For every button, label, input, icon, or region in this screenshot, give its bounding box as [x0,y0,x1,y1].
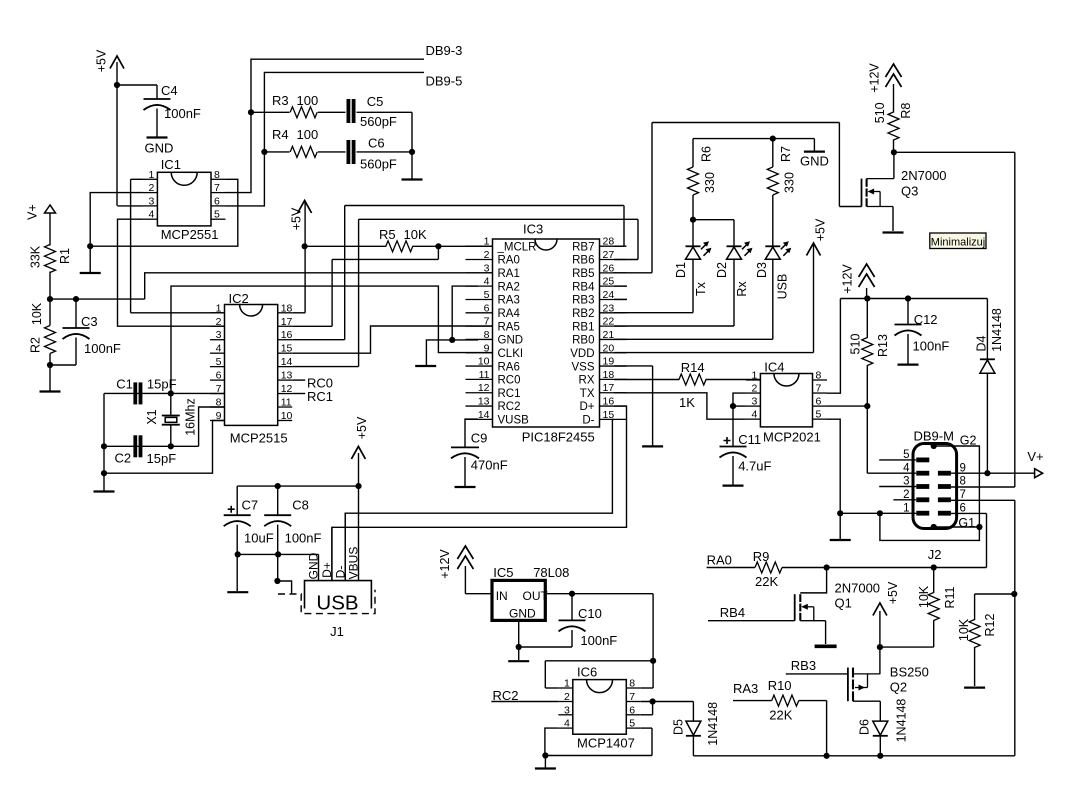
svg-text:510: 510 [873,102,887,123]
svg-text:R5: R5 [379,227,396,242]
svg-text:16Mhz: 16Mhz [184,398,198,436]
svg-text:BS250: BS250 [890,665,929,680]
svg-text:2: 2 [216,316,222,328]
svg-text:V+: V+ [1027,449,1043,464]
svg-text:VBUS: VBUS [347,547,361,580]
svg-text:4.7uF: 4.7uF [738,459,771,474]
svg-text:18: 18 [281,302,293,314]
svg-text:D4: D4 [975,335,989,351]
svg-text:RB5: RB5 [572,268,594,280]
svg-text:DB9-M: DB9-M [914,428,954,443]
svg-text:D5: D5 [672,719,686,735]
svg-text:C3: C3 [81,314,98,329]
svg-text:USB: USB [776,274,790,300]
svg-text:G1: G1 [958,516,975,530]
svg-text:R2: R2 [29,337,43,353]
svg-text:GND: GND [306,552,320,579]
svg-text:RX: RX [579,375,595,387]
svg-text:RA5: RA5 [498,321,520,333]
svg-text:14: 14 [281,356,293,368]
svg-text:7: 7 [960,489,966,501]
svg-text:D3: D3 [755,262,769,278]
svg-text:2N7000: 2N7000 [901,168,947,183]
svg-text:2: 2 [149,182,155,194]
svg-text:R10: R10 [768,678,792,693]
svg-text:100nF: 100nF [84,341,121,356]
svg-text:IC4: IC4 [764,360,784,375]
svg-text:1: 1 [216,302,222,314]
svg-text:1: 1 [484,236,490,248]
svg-text:33K: 33K [29,245,43,268]
svg-text:7: 7 [816,383,822,395]
svg-text:6: 6 [816,396,822,408]
svg-text:D-: D- [333,566,347,579]
svg-text:C5: C5 [367,94,384,109]
svg-text:4: 4 [752,409,758,421]
svg-text:4: 4 [484,276,490,288]
svg-text:C10: C10 [578,606,602,621]
svg-text:R11: R11 [943,586,957,608]
svg-text:560pF: 560pF [360,157,397,172]
svg-text:6: 6 [214,195,220,207]
svg-text:510: 510 [849,334,863,355]
svg-text:9: 9 [484,342,490,354]
svg-text:10K: 10K [30,302,44,325]
svg-text:17: 17 [281,316,293,328]
svg-text:R9: R9 [753,549,770,564]
svg-text:8: 8 [484,329,490,341]
svg-text:5: 5 [484,289,490,301]
svg-text:MCP2021: MCP2021 [763,430,821,445]
svg-text:PIC18F2455: PIC18F2455 [522,430,595,445]
svg-text:RA0: RA0 [707,553,732,568]
svg-text:RB3: RB3 [791,658,816,673]
svg-text:MCP1407: MCP1407 [577,736,635,751]
svg-text:Rx: Rx [735,281,749,297]
svg-text:RA2: RA2 [498,281,520,293]
svg-text:15pF: 15pF [147,377,177,392]
svg-text:24: 24 [603,289,615,301]
svg-text:1: 1 [564,678,570,690]
svg-text:5: 5 [214,209,220,221]
svg-text:VUSB: VUSB [498,415,530,427]
svg-text:2: 2 [484,249,490,261]
svg-text:7: 7 [214,182,220,194]
svg-text:GND: GND [800,154,829,169]
svg-text:10: 10 [281,410,293,422]
svg-text:D+: D+ [320,562,334,578]
svg-text:3: 3 [484,262,490,274]
svg-text:R6: R6 [699,146,713,162]
svg-text:100: 100 [297,93,319,108]
svg-text:USB: USB [316,592,358,615]
svg-text:7: 7 [484,316,490,328]
svg-text:D-: D- [582,415,594,427]
svg-text:28: 28 [603,236,615,248]
svg-text:10K: 10K [917,585,931,608]
svg-text:TX: TX [580,388,595,400]
svg-text:15pF: 15pF [147,451,177,466]
svg-text:Q3: Q3 [901,184,918,199]
svg-text:R1: R1 [58,248,72,264]
svg-text:OUT: OUT [523,589,549,603]
svg-text:R7: R7 [779,146,793,162]
svg-text:560pF: 560pF [360,114,397,129]
svg-text:RC2: RC2 [498,401,521,413]
svg-text:Q2: Q2 [890,680,907,695]
svg-text:1: 1 [752,370,758,382]
svg-text:R13: R13 [876,334,890,357]
svg-text:11: 11 [281,397,292,409]
svg-text:D+: D+ [579,401,594,413]
svg-text:X1: X1 [145,409,159,424]
svg-text:DB9-5: DB9-5 [426,74,463,89]
svg-text:MCP2551: MCP2551 [161,227,219,242]
svg-text:+12V: +12V [868,63,882,93]
svg-text:22K: 22K [755,574,778,589]
svg-text:Tx: Tx [694,281,708,296]
svg-text:C12: C12 [914,312,938,327]
svg-text:4: 4 [216,343,222,355]
svg-text:17: 17 [603,382,615,394]
svg-text:R14: R14 [681,360,705,375]
svg-text:J2: J2 [928,547,942,562]
svg-text:RA0: RA0 [498,255,520,267]
svg-text:2N7000: 2N7000 [835,581,881,596]
svg-text:11: 11 [479,369,490,381]
svg-text:16: 16 [281,329,293,341]
svg-text:RA3: RA3 [733,681,758,696]
svg-text:100: 100 [297,127,319,142]
svg-text:78L08: 78L08 [533,565,569,580]
svg-text:14: 14 [478,409,490,421]
svg-text:RB3: RB3 [572,295,594,307]
svg-text:RB4: RB4 [720,605,745,620]
svg-text:15: 15 [281,343,293,355]
svg-text:+5V: +5V [814,218,828,241]
svg-text:RB6: RB6 [572,255,594,267]
svg-text:J1: J1 [330,624,344,639]
svg-text:Q1: Q1 [835,596,852,611]
svg-text:10uF: 10uF [244,530,274,545]
svg-text:2: 2 [564,691,570,703]
svg-text:6: 6 [960,502,966,514]
svg-text:IN: IN [496,589,508,603]
svg-text:GND: GND [509,607,536,621]
svg-text:6: 6 [216,370,222,382]
svg-text:C4: C4 [161,83,178,98]
svg-text:26: 26 [603,262,615,274]
svg-text:10K: 10K [957,618,971,641]
svg-text:D1: D1 [674,262,688,278]
svg-text:IC5: IC5 [493,565,513,580]
svg-text:10: 10 [478,356,490,368]
svg-text:1K: 1K [679,395,695,410]
svg-text:RB1: RB1 [572,321,594,333]
svg-text:13: 13 [281,370,293,382]
svg-text:MCP2515: MCP2515 [230,431,288,446]
svg-text:DB9-3: DB9-3 [426,43,463,58]
svg-text:IC2: IC2 [229,291,249,306]
svg-text:18: 18 [603,369,615,381]
svg-text:C11: C11 [738,432,761,447]
svg-text:22: 22 [603,316,615,328]
svg-text:27: 27 [603,249,615,261]
svg-text:16: 16 [603,396,615,408]
svg-text:IC6: IC6 [577,664,597,679]
svg-text:3: 3 [216,329,222,341]
svg-text:R3: R3 [272,93,289,108]
svg-text:21: 21 [603,329,615,341]
svg-text:3: 3 [752,396,758,408]
svg-text:C9: C9 [471,431,488,446]
svg-text:D2: D2 [715,262,729,278]
svg-text:22K: 22K [769,708,792,723]
svg-text:10K: 10K [404,227,427,242]
svg-text:4: 4 [564,718,570,730]
svg-text:VDD: VDD [570,348,594,360]
svg-text:RC2: RC2 [493,688,519,703]
svg-text:GND: GND [145,141,174,156]
svg-text:_MCLR: _MCLR [497,241,537,253]
svg-text:IC1: IC1 [161,157,181,172]
svg-text:5: 5 [216,356,222,368]
svg-text:+12V: +12V [438,549,452,579]
svg-text:330: 330 [783,172,797,193]
svg-text:330: 330 [703,172,717,193]
svg-text:2: 2 [752,383,758,395]
svg-text:19: 19 [603,356,615,368]
svg-text:1: 1 [149,169,155,181]
svg-text:8: 8 [214,169,220,181]
svg-text:C8: C8 [292,497,309,512]
svg-text:R8: R8 [899,103,913,119]
svg-text:RA4: RA4 [498,308,521,320]
svg-text:VSS: VSS [571,361,594,373]
svg-text:RB4: RB4 [572,281,595,293]
svg-text:5: 5 [816,409,822,421]
svg-text:RC1: RC1 [498,388,521,400]
svg-text:+5V: +5V [886,581,900,604]
svg-text:RC0: RC0 [498,375,521,387]
svg-text:RC1: RC1 [307,389,333,404]
svg-text:RA6: RA6 [498,361,520,373]
svg-text:8: 8 [629,678,635,690]
svg-text:RB2: RB2 [572,308,594,320]
svg-text:100nF: 100nF [913,339,950,354]
svg-text:1N4148: 1N4148 [990,308,1004,352]
svg-text:IC3: IC3 [523,222,543,237]
svg-text:C2: C2 [115,451,132,466]
svg-text:RA3: RA3 [498,295,520,307]
svg-text:12: 12 [281,383,293,395]
svg-text:R12: R12 [983,613,997,636]
svg-text:7: 7 [629,691,635,703]
svg-text:D6: D6 [858,719,872,735]
svg-text:100nF: 100nF [285,530,322,545]
svg-text:8: 8 [816,370,822,382]
svg-text:RB7: RB7 [572,241,594,253]
svg-text:C7: C7 [242,497,259,512]
svg-text:+5V: +5V [290,207,304,230]
svg-text:8: 8 [960,476,966,488]
svg-text:6: 6 [629,704,635,716]
svg-text:Minimalizuj: Minimalizuj [931,237,985,249]
svg-text:RB0: RB0 [572,335,594,347]
svg-text:RA1: RA1 [498,268,520,280]
svg-text:4: 4 [149,209,155,221]
svg-text:+5V: +5V [95,49,109,72]
svg-text:470nF: 470nF [471,458,508,473]
svg-text:20: 20 [603,342,615,354]
svg-text:V+: V+ [26,204,40,220]
svg-text:100nF: 100nF [164,106,201,121]
svg-text:23: 23 [603,302,615,314]
svg-text:+12V: +12V [841,264,855,294]
svg-text:1N4148: 1N4148 [706,702,720,746]
svg-text:5: 5 [629,718,635,730]
svg-text:6: 6 [484,302,490,314]
svg-text:13: 13 [478,396,490,408]
svg-text:25: 25 [603,276,615,288]
svg-text:CLKI: CLKI [498,348,524,360]
svg-text:12: 12 [478,382,490,394]
svg-text:+5V: +5V [355,416,369,439]
svg-text:C6: C6 [368,136,385,151]
svg-text:R4: R4 [272,127,289,142]
svg-text:100nF: 100nF [580,633,617,648]
svg-text:GND: GND [498,335,524,347]
svg-text:C1: C1 [116,377,133,392]
svg-text:3: 3 [564,704,570,716]
svg-text:3: 3 [149,195,155,207]
svg-text:1N4148: 1N4148 [895,699,909,743]
